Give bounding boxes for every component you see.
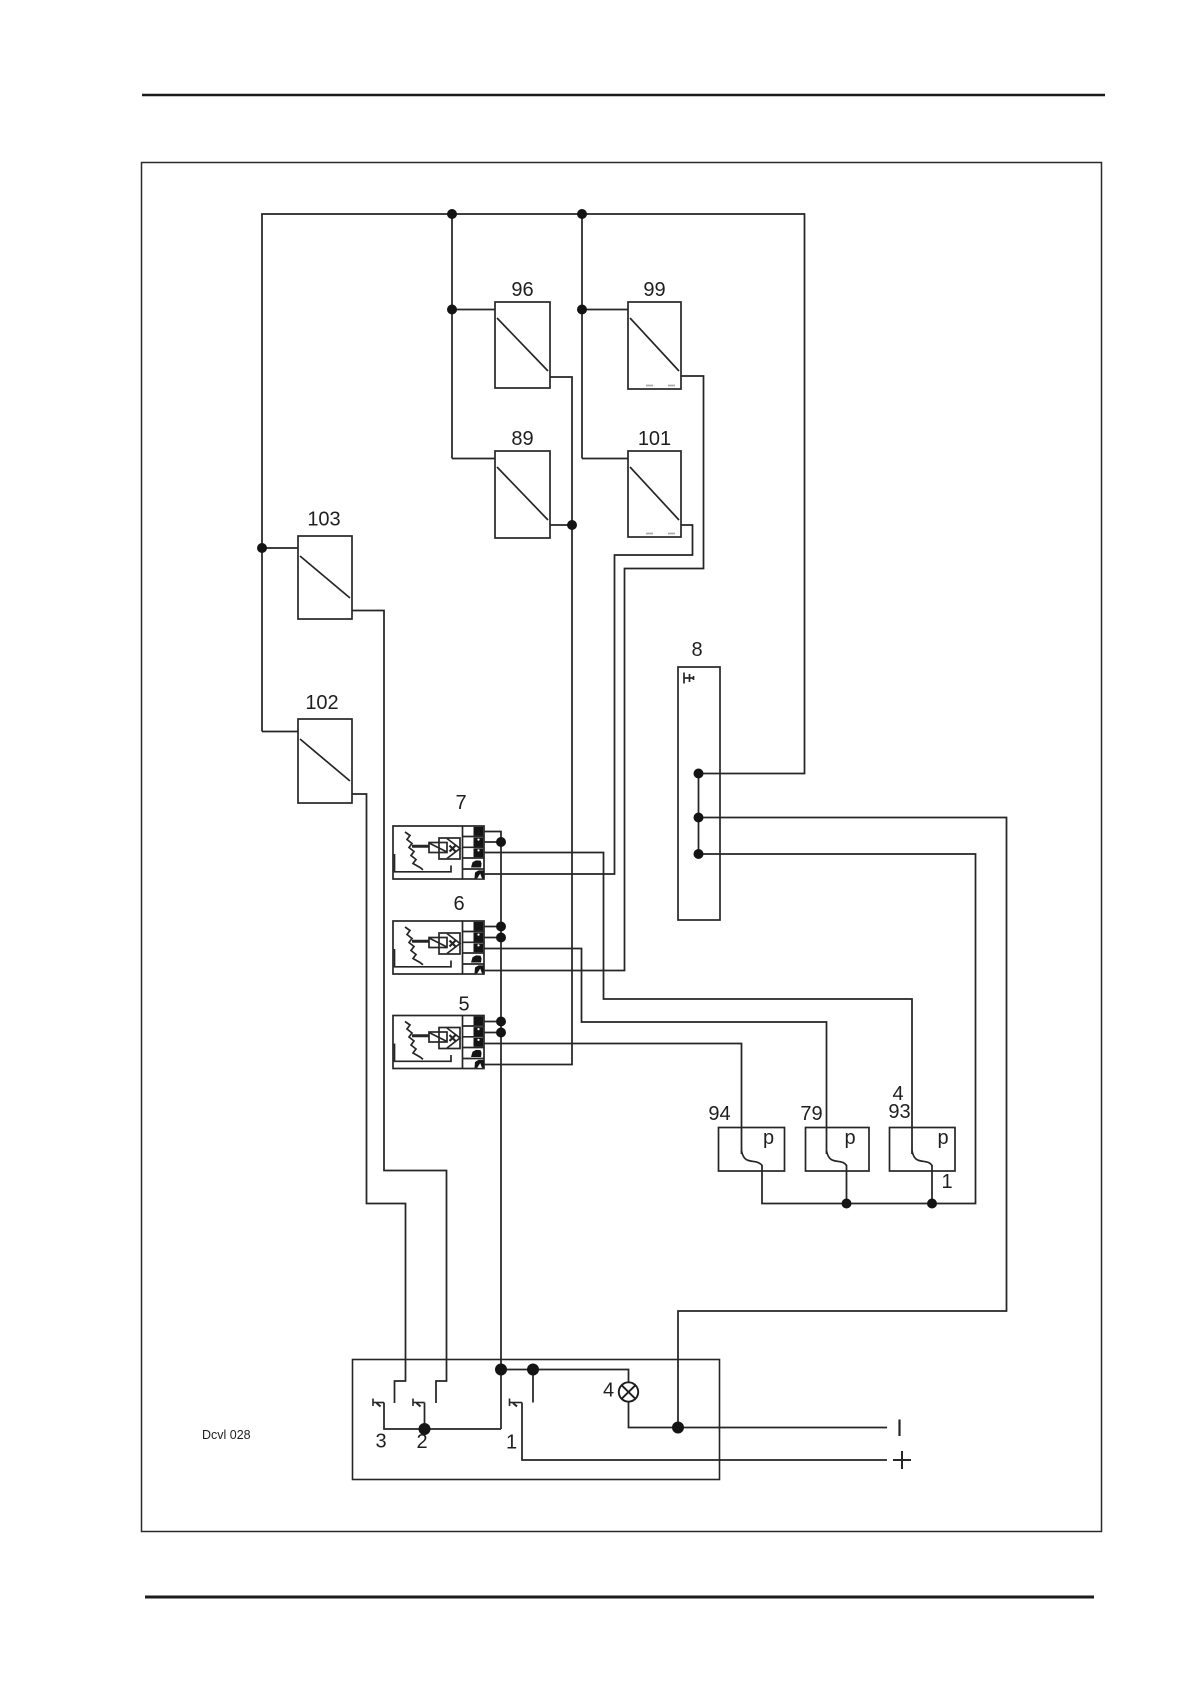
relay 103 <box>298 536 352 619</box>
wire valve 6 pin 1 <box>484 926 501 928</box>
svg-text:103: 103 <box>307 509 340 531</box>
svg-text:8: 8 <box>691 639 702 661</box>
wire into relay 96 <box>452 309 495 311</box>
pressure switch 93 <box>890 1128 956 1172</box>
wire node of 96/89 down to valve 5 pin <box>484 525 572 1065</box>
control unit box <box>353 1360 720 1480</box>
wire into relay 101 <box>582 458 628 460</box>
svg-text:89: 89 <box>511 428 533 450</box>
valve module 7 <box>393 826 484 879</box>
wire output of relay 102 to switch 3 arm <box>352 794 406 1403</box>
svg-text:p: p <box>844 1127 855 1149</box>
bottom horizontal rule <box>145 1596 1094 1599</box>
svg-text:5: 5 <box>458 994 469 1016</box>
relay 101 <box>628 451 681 537</box>
svg-text:7: 7 <box>455 792 466 814</box>
wire switch 2 contact drop <box>424 1403 426 1430</box>
wire gear selector contact b to lamp node <box>678 818 1007 1428</box>
svg-text:6: 6 <box>453 893 464 915</box>
svg-text:p: p <box>763 1127 774 1149</box>
svg-text:1: 1 <box>941 1171 952 1193</box>
svg-text:96: 96 <box>511 279 533 301</box>
gear selector unit 8 <box>678 667 720 920</box>
wire output of relay 103 to switch 2 arm <box>352 611 447 1404</box>
svg-text:93: 93 <box>888 1101 910 1123</box>
wire output of relay 99 to valve 6 pin <box>484 376 704 971</box>
wire output of relay 89 <box>550 524 572 526</box>
svg-text:Dcvl 028: Dcvl 028 <box>202 1428 251 1442</box>
svg-text:3: 3 <box>375 1431 386 1453</box>
terminal I mark <box>898 1420 900 1437</box>
relay 89 <box>495 451 550 538</box>
pressure switch 94 <box>719 1128 785 1172</box>
wire switch 1 contact to terminal plus <box>522 1403 887 1461</box>
switch 2 fixed contact <box>413 1399 425 1407</box>
wire pressure switch 93 return stub <box>931 1165 933 1204</box>
svg-text:p: p <box>937 1127 948 1149</box>
wire lamp to terminal I <box>629 1402 888 1428</box>
wire into relay 99 <box>582 309 628 311</box>
svg-text:2: 2 <box>416 1431 427 1453</box>
wire switch 1 arm from node B <box>532 1370 534 1403</box>
wire drop to relays 99 and 101 <box>581 214 583 459</box>
wire feed to relay 103 <box>262 547 298 549</box>
wire valve 6 pin 2 <box>484 937 501 939</box>
pressure switch 79 <box>806 1128 870 1172</box>
wire output of relay 96 <box>550 377 572 525</box>
outer border frame <box>142 163 1102 1532</box>
wire top supply bus <box>262 214 805 774</box>
svg-text:79: 79 <box>800 1103 822 1125</box>
svg-text:99: 99 <box>643 279 665 301</box>
wire output of relay 101 to valve 7 pin <box>484 525 693 874</box>
relay 96 <box>495 302 550 388</box>
svg-text:94: 94 <box>708 1103 730 1125</box>
wire valve 7 pin 3 to pressure switch 93 <box>484 853 912 1155</box>
wire common line from valves to control unit <box>500 842 502 1429</box>
wire node B to lamp <box>533 1370 629 1383</box>
wire node A to node B link <box>501 1369 533 1371</box>
lamp 4 <box>619 1382 638 1401</box>
wire valve 7 pin 2 <box>484 841 501 843</box>
wire valve 5 pin 2 <box>484 1032 501 1034</box>
wire switches 3 and 2 common to valve common <box>384 1403 501 1430</box>
valve module 5 <box>393 1016 484 1069</box>
wire pressure switch 79 return stub <box>846 1165 848 1204</box>
switch 3 fixed contact <box>373 1399 384 1407</box>
svg-text:4: 4 <box>603 1380 614 1402</box>
wire feed to relay 102 <box>262 731 298 733</box>
valve module 6 <box>393 921 484 974</box>
wire valve 7 pin 1 <box>484 832 501 843</box>
wire valve 5 pin 3 to pressure switch 94 <box>484 1044 742 1155</box>
wire into relay 89 <box>452 458 495 460</box>
wire valve 5 pin 1 <box>484 1021 501 1023</box>
svg-text:101: 101 <box>638 428 671 450</box>
wire gear selector contact c to pressure switch returns <box>699 854 976 1204</box>
top horizontal rule <box>142 94 1105 97</box>
wire drop to relays 96 and 89 <box>451 214 453 459</box>
terminal plus mark <box>893 1451 911 1469</box>
svg-text:102: 102 <box>305 692 338 714</box>
relay 102 <box>298 719 352 803</box>
svg-text:1: 1 <box>506 1432 517 1454</box>
relay 99 <box>628 302 681 389</box>
switch 1 fixed contact <box>510 1399 523 1407</box>
wire gear selector contact a to top bus <box>698 774 700 855</box>
wire valve 6 pin 3 to pressure switch 79 <box>484 949 827 1155</box>
